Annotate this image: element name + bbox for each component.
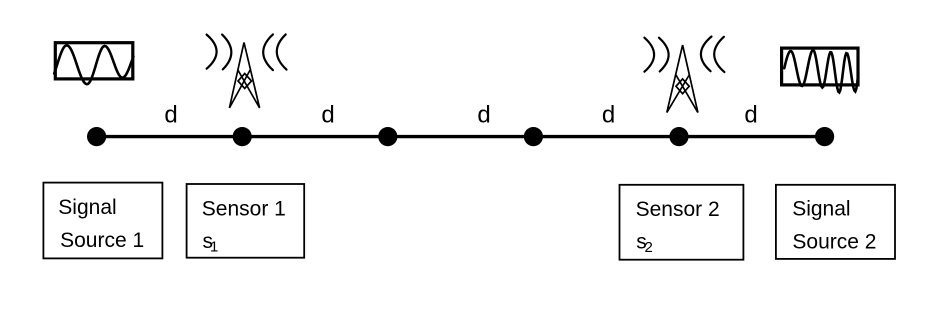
svg-text:2: 2 bbox=[645, 239, 653, 256]
signal source 1 sine wave bbox=[54, 45, 133, 84]
svg-text:Source 1: Source 1 bbox=[60, 229, 144, 252]
distance label d 3 bbox=[477, 101, 490, 128]
svg-text:Sensor 1: Sensor 1 bbox=[202, 198, 286, 221]
sensor 2 box bbox=[620, 185, 744, 260]
distance label d 4 bbox=[602, 101, 615, 128]
signal source 2 box bbox=[776, 185, 895, 259]
sensor 1 right wave arcs bbox=[263, 34, 286, 70]
node dot 2 (sensor 1) bbox=[233, 127, 252, 146]
svg-text:d: d bbox=[321, 101, 334, 128]
signal source 1 waveform frame bbox=[55, 43, 133, 79]
distance label d 2 bbox=[321, 101, 334, 128]
sensor 1 left wave arcs bbox=[207, 35, 232, 70]
baseline wire bbox=[97, 135, 825, 138]
svg-text:Signal: Signal bbox=[58, 196, 116, 219]
svg-text:d: d bbox=[602, 101, 615, 128]
node dot 5 (sensor 2) bbox=[669, 127, 688, 146]
signal source 2 waveform frame bbox=[782, 48, 858, 85]
svg-text:1: 1 bbox=[210, 238, 218, 255]
signal source 2 chirp wave bbox=[784, 50, 858, 92]
sensor 1 antenna tower bbox=[229, 42, 259, 108]
sensor 1 box bbox=[187, 184, 305, 258]
distance label d 1 bbox=[164, 101, 177, 128]
sensor 2 antenna tower bbox=[667, 45, 698, 113]
svg-text:d: d bbox=[477, 101, 490, 128]
svg-text:Signal: Signal bbox=[792, 198, 850, 221]
node dot 6 bbox=[815, 127, 834, 146]
sensor 2 right wave arcs bbox=[701, 37, 724, 73]
node dot 1 bbox=[87, 127, 106, 146]
svg-text:Source 2: Source 2 bbox=[792, 231, 876, 254]
svg-text:d: d bbox=[164, 101, 177, 128]
node dot 4 bbox=[524, 127, 543, 146]
distance label d 5 bbox=[744, 101, 757, 128]
sensor 2 left wave arcs bbox=[644, 38, 668, 72]
node dot 3 bbox=[378, 127, 397, 146]
svg-text:Sensor 2: Sensor 2 bbox=[636, 198, 720, 221]
svg-text:d: d bbox=[744, 101, 757, 128]
signal source 1 box bbox=[43, 183, 162, 259]
